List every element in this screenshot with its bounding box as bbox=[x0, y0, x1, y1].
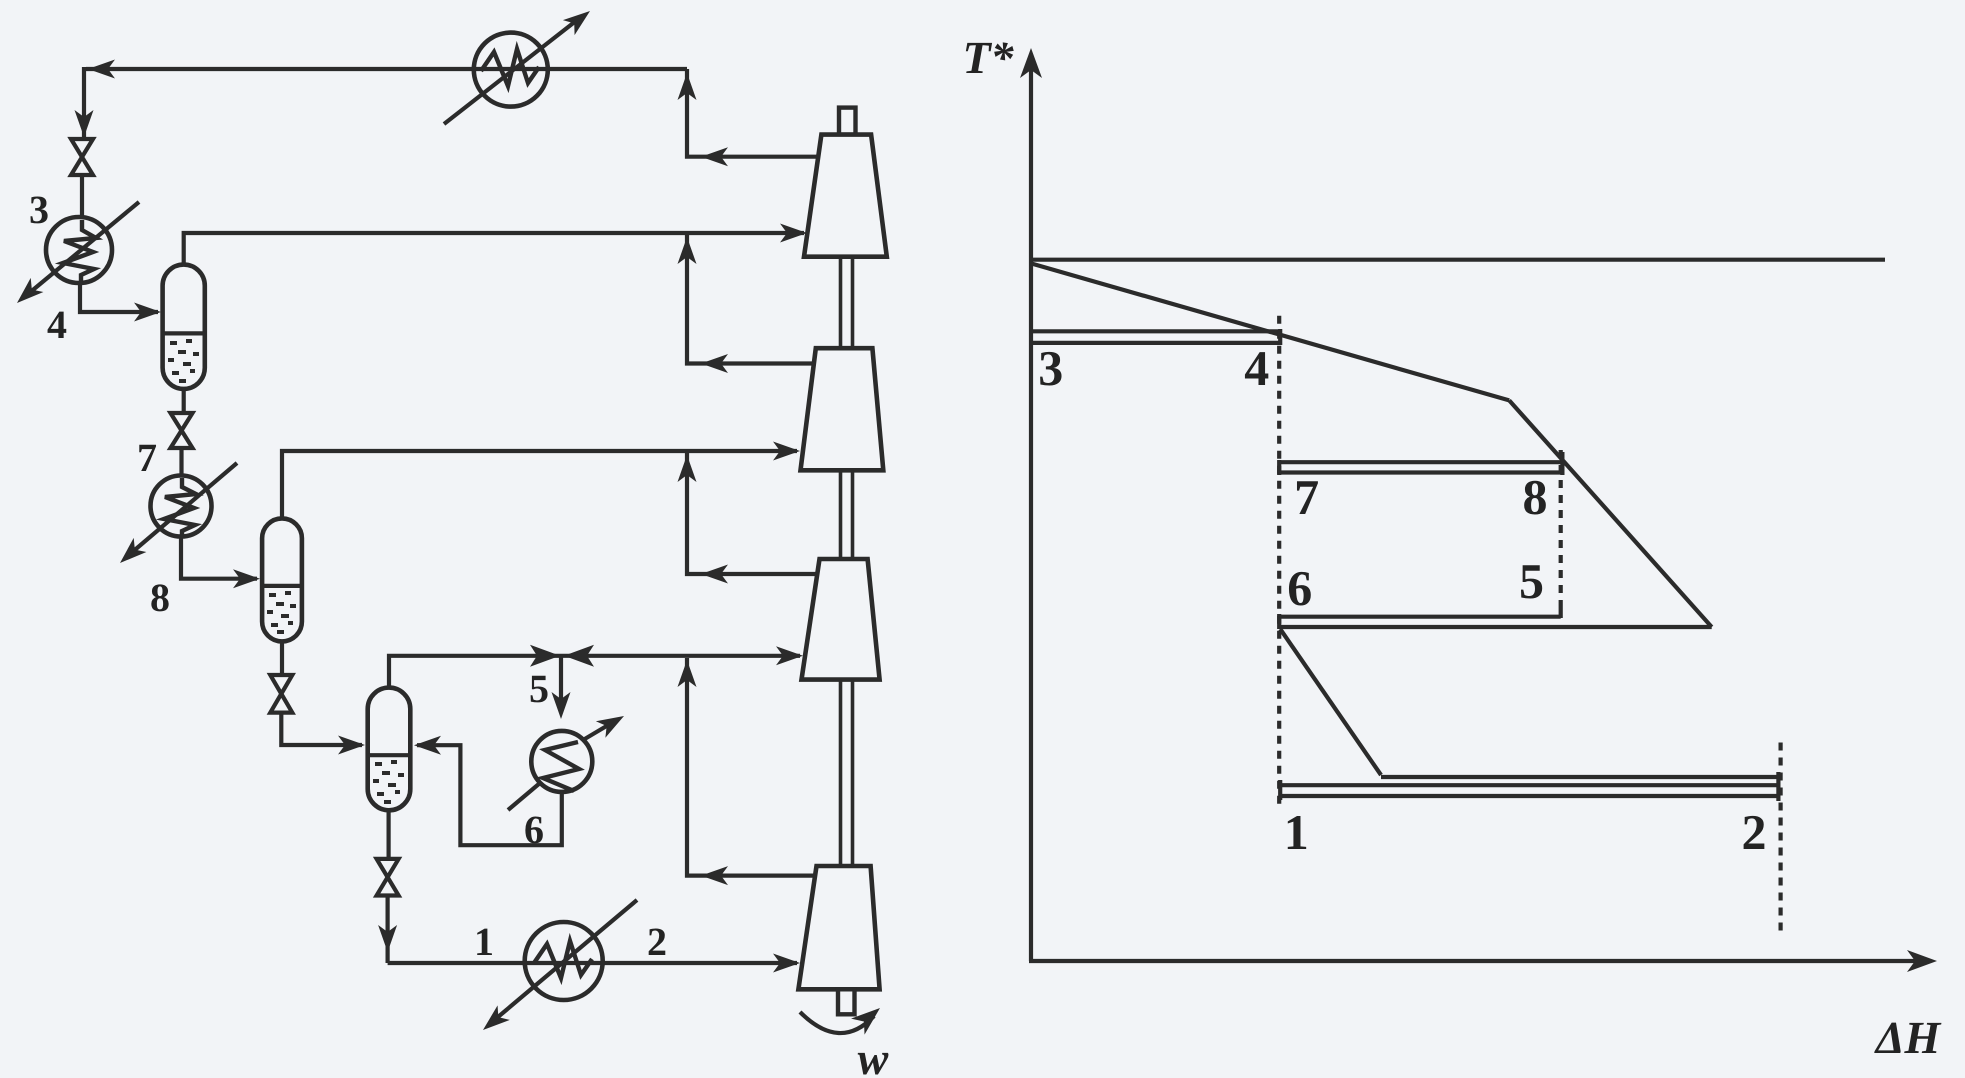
D2 liquid level line bbox=[263, 584, 302, 588]
arrow into drum D1 bbox=[134, 303, 161, 322]
flash drum D1 (capsule vessel) bbox=[163, 265, 205, 389]
hot composite diagonal (steep lower) bbox=[1509, 400, 1712, 627]
dashed vertical at point 2 bbox=[1778, 743, 1782, 933]
wire: stage K2 discharge riser to K1 suction bbox=[687, 235, 814, 364]
flash drum D2 (capsule vessel) bbox=[262, 518, 302, 641]
compressor shaft stub (bottom) bbox=[838, 989, 855, 1014]
D3 liquid level line bbox=[368, 753, 410, 757]
wire: evaporator line 1-2 to stage 4 suction bbox=[388, 961, 797, 965]
segment 6-5 right cap to dashed bbox=[1559, 606, 1563, 618]
wire: D1 liquid to valve V2 bbox=[182, 387, 186, 414]
wire: valve V2 to heat exchanger 7 bbox=[179, 448, 183, 477]
top horizontal line (hot stream inlet level) bbox=[1031, 258, 1885, 262]
svg-text:T*: T* bbox=[962, 32, 1014, 83]
svg-text:w: w bbox=[858, 1033, 889, 1078]
shaft between K2 and K3 (double line) bbox=[841, 470, 853, 559]
D2 liquid speckles bbox=[267, 591, 296, 634]
shaft between K3 and K4 (long double line) bbox=[841, 680, 853, 866]
wire: D2 liquid to valve V3 bbox=[280, 640, 284, 676]
dashed vertical at point 8/5 bbox=[1559, 450, 1563, 606]
valve V4 (vertical bowtie) bbox=[377, 859, 399, 877]
heat exchanger HX3 (circle) bbox=[46, 217, 112, 283]
chart T* axis (vertical) bbox=[1029, 58, 1033, 961]
svg-text:5: 5 bbox=[529, 666, 549, 711]
HX6 zigzag coil bbox=[543, 742, 579, 791]
arrow up on condenser riser bbox=[678, 73, 697, 100]
arrow left on K3 discharge bbox=[701, 565, 728, 584]
wire: valve V3 to flash drum D3 bbox=[281, 712, 362, 745]
arrow into drum D2 bbox=[233, 569, 260, 588]
tee arrows at stream 5 takeoff (right-pointing) bbox=[530, 645, 560, 667]
HX7 duty line (diagonal) bbox=[130, 463, 237, 554]
valve V2 (vertical bowtie) bbox=[171, 413, 193, 431]
arrow into right side of drum D3 bbox=[414, 736, 441, 755]
arrow left on K4 discharge bbox=[701, 866, 728, 885]
wire: HX7 outlet to flash drum D2 bbox=[181, 535, 257, 579]
segment 1-2 (double line) bbox=[1280, 785, 1778, 796]
arrow into compressor stage 1 bbox=[780, 224, 807, 243]
wire: stage K1 discharge to condenser riser bbox=[687, 69, 818, 157]
svg-text:3: 3 bbox=[29, 187, 49, 232]
heat exchanger HXC condenser (circle, top) bbox=[474, 33, 548, 107]
segment 6-5 left end cap bbox=[1277, 614, 1281, 629]
svg-text:2: 2 bbox=[647, 919, 667, 964]
D1 liquid level line bbox=[163, 331, 204, 335]
svg-text:4: 4 bbox=[47, 302, 67, 347]
wire: D2 vapor to stage 2 suction bbox=[282, 451, 797, 520]
arrow left on K2 discharge bbox=[701, 354, 728, 373]
compressor stage K3 (trapezoid) bbox=[802, 559, 880, 680]
arrow duty out of HX3 (down-left), stream 4 bbox=[11, 278, 44, 310]
arrow into compressor stage 4 bbox=[773, 954, 800, 973]
svg-text:1: 1 bbox=[474, 919, 494, 964]
wire: D3 liquid to valve V4 bbox=[387, 808, 391, 860]
horizontal line into diagonal end (segment 6-5 lower line) bbox=[1279, 625, 1712, 629]
wire: HX6 outlet back to drum D3 bbox=[417, 745, 562, 845]
segment 7-8 (double line) bbox=[1279, 462, 1562, 472]
compressor stage K1 (trapezoid) bbox=[804, 135, 887, 257]
arrow down onto valve V1 bbox=[75, 110, 94, 137]
compressor stage K4 (trapezoid) bbox=[798, 866, 879, 989]
tee arrows at stream 5 takeoff (left-pointing) bbox=[564, 645, 594, 667]
arrow down at corner before evaporator bbox=[378, 925, 397, 952]
arrow up on K4-K3 riser bbox=[678, 660, 697, 687]
arrow duty out of HX7 (down-left), stream 8 bbox=[114, 538, 147, 570]
segment 1-2 cold composite top line bbox=[1381, 775, 1778, 779]
D3 liquid speckles bbox=[373, 760, 404, 804]
segment 7-8 end caps bbox=[1279, 452, 1562, 475]
hot composite diagonal (upper) bbox=[1031, 263, 1509, 400]
wire: D1 vapor to stage 1 suction bbox=[184, 233, 804, 266]
wire: valve V4 down to evaporator line bbox=[386, 895, 390, 963]
svg-text:ΔH: ΔH bbox=[1874, 1012, 1942, 1063]
flash drum D3 (capsule vessel) bbox=[368, 688, 411, 811]
shaft between K1 and K2 (double line) bbox=[841, 257, 853, 349]
wire: valve V1 to heat exchanger 3 bbox=[80, 175, 84, 218]
HX3 duty line (diagonal) bbox=[28, 202, 139, 294]
svg-text:3: 3 bbox=[1038, 340, 1063, 396]
segment 6-5 top line bbox=[1279, 615, 1561, 619]
HXC duty line (diagonal) bbox=[444, 17, 581, 124]
arrow into drum D3 bbox=[338, 736, 365, 755]
wire: D3 vapor line to stage 3 suction bbox=[389, 656, 800, 689]
D1 liquid speckles bbox=[168, 339, 199, 383]
segment 3-4 right end cap bbox=[1278, 329, 1282, 345]
arrow right on dH axis bbox=[1907, 950, 1937, 972]
wire: condenser return line (top) bbox=[86, 67, 687, 71]
valve V1 (expansion valve, vertical bowtie) bbox=[71, 139, 93, 157]
arrow up on T* axis bbox=[1020, 48, 1042, 78]
heat exchanger HX6 (circle) bbox=[531, 731, 592, 792]
HXE duty line (diagonal) bbox=[492, 900, 637, 1022]
compressor stage K2 (trapezoid) bbox=[801, 348, 884, 470]
HXE zigzag coil bbox=[534, 941, 592, 978]
valve V3 (vertical bowtie) bbox=[270, 675, 292, 694]
wire: left drop to expansion valve bbox=[82, 67, 86, 140]
rotation arrow arc (w) bbox=[800, 1012, 874, 1033]
svg-text:5: 5 bbox=[1519, 553, 1544, 609]
arrow duty out of HXE (down-left) bbox=[477, 1005, 510, 1037]
segment 1-2 end caps bbox=[1280, 772, 1778, 801]
wire: stage K4 discharge riser to K3 suction bbox=[687, 658, 815, 876]
HX6 duty in line (diagonal lower-left) bbox=[508, 783, 540, 810]
svg-text:1: 1 bbox=[1284, 804, 1309, 860]
svg-text:4: 4 bbox=[1244, 340, 1269, 396]
HX6 duty out arrow (up-right) bbox=[583, 721, 615, 740]
wire: stream 5 drop to HX6 bbox=[559, 656, 563, 700]
arrow into compressor stage 3 bbox=[776, 646, 803, 665]
svg-text:8: 8 bbox=[1523, 469, 1548, 525]
dashed vertical at point 4/7/6/1 bbox=[1277, 316, 1281, 810]
svg-text:6: 6 bbox=[1287, 560, 1312, 616]
svg-text:2: 2 bbox=[1742, 804, 1767, 860]
compressor shaft stub (top) bbox=[839, 108, 856, 135]
arrow up on K3-K2 riser bbox=[678, 455, 697, 482]
HXC zigzag coil bbox=[481, 49, 539, 86]
arrow up on K2-K1 riser bbox=[678, 237, 697, 264]
svg-text:8: 8 bbox=[150, 575, 170, 620]
wire: stage K3 discharge riser to K2 suction bbox=[687, 453, 817, 574]
heat exchanger HXE evaporator (circle) bbox=[525, 922, 603, 1000]
segment 3-4 (double line) bbox=[1031, 331, 1280, 343]
HX3 zigzag coil bbox=[63, 220, 96, 282]
svg-text:7: 7 bbox=[137, 435, 157, 480]
arrow left on K1 discharge bbox=[701, 147, 728, 166]
arrow down into HX6 bbox=[552, 692, 571, 719]
HX7 zigzag coil bbox=[164, 478, 196, 536]
arrow into compressor stage 2 bbox=[773, 442, 800, 461]
wire: HX3 outlet to flash drum D1 bbox=[80, 281, 158, 312]
heat exchanger HX7 (circle) bbox=[151, 476, 212, 537]
arrow into top-left corner (flow left) bbox=[88, 60, 115, 79]
svg-text:7: 7 bbox=[1294, 469, 1319, 525]
arrow duty out of HXC (up-right) bbox=[563, 4, 596, 36]
chart dH axis (horizontal) bbox=[1029, 959, 1928, 963]
cold composite diagonal from 6 down to 1-2 level bbox=[1280, 629, 1381, 775]
